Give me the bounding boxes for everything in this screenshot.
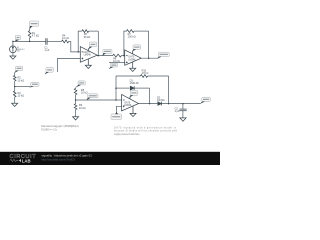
svg-text:470 Ω: 470 Ω: [142, 72, 149, 75]
svg-text:56 kΩ: 56 kΩ: [84, 36, 91, 39]
svg-text:signality : klausens peak det: signality : klausens peak det x2 gain 01: [42, 154, 93, 158]
svg-text:1N34A: 1N34A: [157, 99, 165, 102]
svg-text:LM346: LM346: [128, 59, 136, 61]
svg-text:supply powered model here.: supply powered model here.: [114, 133, 140, 136]
svg-text:1 μF: 1 μF: [44, 49, 50, 52]
svg-text:10 kΩ: 10 kΩ: [79, 107, 86, 110]
svg-text:10 kΩ: 10 kΩ: [62, 37, 69, 40]
svg-text:OA75: OA75: [84, 51, 91, 54]
svg-text:OA75 replaced with a germanium: OA75 replaced with a germanium model in: [114, 126, 177, 129]
svg-text:LM346: LM346: [124, 105, 132, 107]
svg-text:OA75: OA75: [124, 101, 131, 104]
svg-text:LAB: LAB: [22, 158, 31, 163]
svg-text:100 kΩ: 100 kΩ: [128, 35, 136, 38]
svg-text:R10||R9 => 10x: R10||R9 => 10x: [41, 128, 58, 131]
svg-text:10 kΩ: 10 kΩ: [18, 79, 25, 82]
svg-text:1k): 1k): [17, 51, 20, 53]
svg-text:10 kΩ: 10 kΩ: [18, 94, 25, 97]
svg-text:http://circuitlab.com/c/7cs823: http://circuitlab.com/c/7cs823: [42, 157, 76, 161]
svg-text:10 kΩ: 10 kΩ: [81, 92, 88, 95]
svg-text:4.7 kΩ: 4.7 kΩ: [32, 34, 39, 37]
svg-text:LM346: LM346: [84, 55, 92, 57]
svg-text:1N4148: 1N4148: [130, 82, 139, 85]
svg-text:because Si diodes will not sim: because Si diodes will not simulate corr…: [114, 130, 178, 133]
svg-text:Peak detector stage gain = (R5: Peak detector stage gain = (R5/(R8||R10)…: [41, 125, 79, 128]
svg-text:OA75: OA75: [128, 56, 135, 59]
svg-text:10 kΩ: 10 kΩ: [113, 60, 120, 63]
svg-text:1 μF: 1 μF: [175, 110, 181, 113]
